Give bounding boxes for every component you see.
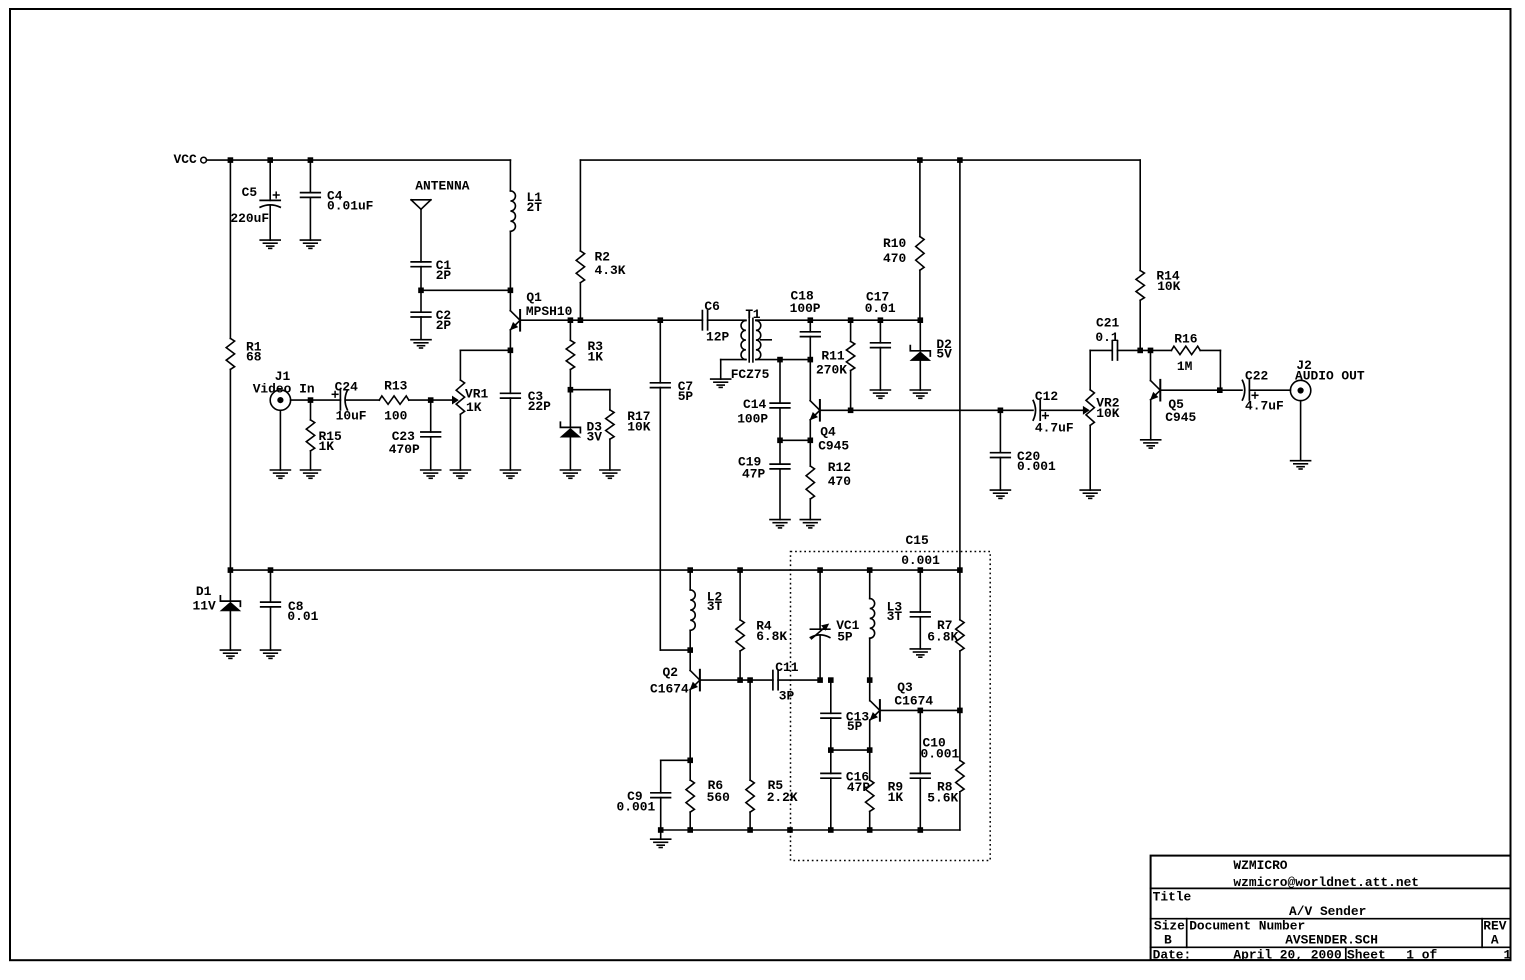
svg-text:C21: C21: [1096, 316, 1119, 331]
capacitor C6: [702, 299, 746, 345]
svg-text:100: 100: [384, 408, 407, 423]
resistor R11: [816, 320, 855, 410]
transistor Q1: [510, 290, 572, 350]
capacitor C10: [911, 710, 960, 830]
junction Q5 collector node: [1148, 348, 1154, 354]
junction bottom rail C10: [918, 827, 924, 833]
ground below R17: [600, 470, 620, 478]
svg-text:5P: 5P: [678, 389, 694, 404]
svg-text:0.001: 0.001: [921, 746, 960, 761]
junction Q4 emitter link right: [808, 438, 814, 444]
svg-text:FCZ75: FCZ75: [731, 367, 770, 382]
wire Q2 emitter to C9: [661, 760, 691, 793]
svg-text:April 20, 2000: April 20, 2000: [1233, 948, 1341, 963]
junction antenna node: [418, 288, 424, 294]
svg-text:Size: Size: [1154, 919, 1185, 934]
resistor R5: [746, 680, 798, 830]
svg-text:3P: 3P: [779, 689, 795, 704]
ground below C5: [260, 240, 280, 248]
ground below C3: [500, 470, 520, 478]
capacitor C4: [301, 160, 374, 240]
capacitor C17: [865, 290, 896, 390]
svg-text:C24: C24: [335, 380, 358, 395]
junction base line R5 / C11: [747, 677, 753, 683]
junction RF line C18: [808, 317, 814, 323]
capacitor C11: [750, 660, 820, 704]
zener diode D3: [560, 390, 602, 470]
junction R14 / C21 node: [1137, 348, 1143, 354]
svg-text:R13: R13: [384, 379, 407, 394]
capacitor C19: [738, 440, 790, 519]
wire node to R16: [1140, 349, 1171, 351]
transistor Q2: [650, 650, 700, 760]
svg-text:11V: 11V: [193, 599, 216, 614]
ground below J1: [270, 470, 290, 478]
junction top rail C4: [308, 157, 314, 163]
svg-text:C1674: C1674: [894, 694, 933, 709]
svg-text:4.3K: 4.3K: [595, 263, 626, 278]
capacitor C22: [1242, 369, 1290, 414]
svg-text:470: 470: [828, 474, 851, 489]
junction base line R2: [578, 317, 584, 323]
resistor R4: [736, 570, 788, 680]
variable capacitor VC1: [810, 570, 859, 680]
junction lower rail C15: [918, 567, 924, 573]
svg-text:2.2K: 2.2K: [767, 790, 798, 805]
svg-text:C14: C14: [743, 397, 766, 412]
svg-text:C945: C945: [1165, 410, 1196, 425]
capacitor C18: [790, 288, 821, 359]
svg-text:3T: 3T: [887, 609, 903, 624]
svg-text:4.7uF: 4.7uF: [1035, 420, 1074, 435]
svg-text:WZMICRO: WZMICRO: [1233, 858, 1287, 873]
svg-text:Q1: Q1: [526, 290, 542, 305]
junction bottom rail R6: [687, 827, 693, 833]
wire Q1 base line: [520, 319, 702, 321]
junction Q3 base R7 R8: [957, 708, 963, 714]
ground below Q5: [1141, 440, 1161, 448]
svg-text:47P: 47P: [742, 467, 765, 482]
junction RF line R11: [848, 317, 854, 323]
svg-text:REV: REV: [1483, 919, 1506, 934]
connector J1 Video In: [253, 369, 315, 470]
capacitor C7: [651, 320, 694, 650]
transistor Q4: [810, 360, 849, 454]
svg-text:Date:: Date:: [1153, 948, 1192, 963]
svg-text:B: B: [1164, 933, 1172, 948]
ground below J2: [1291, 461, 1311, 469]
svg-text:6.8K: 6.8K: [756, 629, 787, 644]
capacitor C9: [617, 789, 671, 830]
junction bottom rail R9: [867, 827, 873, 833]
svg-text:ANTENNA: ANTENNA: [415, 179, 469, 194]
wire C13 to Q3 emitter: [831, 749, 870, 751]
svg-text:5P: 5P: [837, 630, 853, 645]
capacitor C8: [261, 570, 319, 650]
svg-text:A: A: [1491, 933, 1499, 948]
svg-text:1K: 1K: [888, 790, 904, 805]
ground below C8: [261, 650, 281, 658]
svg-text:1M: 1M: [1177, 359, 1193, 374]
wire Q3 base line: [880, 709, 960, 711]
junction Q5 base / R16: [1217, 387, 1223, 393]
capacitor C3: [501, 350, 552, 470]
ground below D2: [910, 390, 930, 398]
junction base line R3: [568, 317, 574, 323]
junction Q3 base C10: [918, 708, 924, 714]
ground below C17: [870, 390, 890, 398]
title block title row: [1153, 890, 1367, 920]
junction lower rail VC1: [817, 567, 823, 573]
svg-text:560: 560: [707, 790, 730, 805]
junction lower rail C8: [268, 567, 274, 573]
junction lower rail oscillator column: [957, 567, 963, 573]
ground below T1 primary: [711, 379, 731, 387]
junction osc line L3 / Q3 collector: [867, 677, 873, 683]
junction base line C7: [658, 317, 664, 323]
capacitor C13: [821, 680, 869, 750]
svg-text:AVSENDER.SCH: AVSENDER.SCH: [1285, 933, 1378, 948]
capacitor C1: [411, 258, 451, 312]
svg-text:0.01: 0.01: [287, 609, 318, 624]
wire lower rail: [230, 569, 960, 571]
resistor R15: [306, 400, 342, 470]
capacitor C20: [991, 410, 1056, 490]
svg-text:D1: D1: [196, 584, 212, 599]
ground below D1: [220, 650, 240, 658]
wire RF output line: [756, 319, 920, 321]
potentiometer VR1: [431, 380, 489, 470]
svg-text:68: 68: [246, 350, 262, 365]
capacitor C16: [821, 750, 870, 830]
svg-text:Q2: Q2: [663, 665, 678, 680]
junction bottom rail R5: [747, 827, 753, 833]
svg-text:10K: 10K: [627, 420, 650, 435]
title block size/document row: [1154, 919, 1507, 948]
ground below C19: [770, 520, 790, 528]
ground below VR1: [450, 470, 470, 478]
zener diode D1: [193, 570, 241, 650]
svg-text:0.01: 0.01: [865, 301, 896, 316]
svg-text:6.8K: 6.8K: [927, 630, 958, 645]
svg-text:1 of: 1 of: [1406, 948, 1437, 963]
capacitor C14: [737, 360, 790, 441]
wire VCC top rail left segment: [207, 159, 511, 161]
junction bottom rail C9 ground: [658, 827, 664, 833]
transformer T1 primary winding: [721, 307, 770, 382]
inductor L2: [690, 570, 722, 650]
svg-text:1K: 1K: [466, 400, 482, 415]
svg-text:220uF: 220uF: [230, 211, 269, 226]
svg-text:0.01uF: 0.01uF: [327, 199, 373, 214]
resistor R9: [866, 750, 904, 830]
node VCC terminal: [174, 152, 207, 167]
junction secondary bottom C18 / Q4 collector: [808, 357, 814, 363]
svg-text:470: 470: [883, 251, 906, 266]
resistor R7: [927, 570, 964, 710]
wire oscillator bottom rail: [661, 830, 960, 839]
svg-text:R10: R10: [883, 236, 906, 251]
ground below D3: [560, 470, 580, 478]
junction lower rail D1: [228, 567, 234, 573]
junction C14 / Q4 emitter link left: [777, 438, 783, 444]
resistor R16: [1171, 332, 1220, 391]
svg-text:C5: C5: [242, 185, 258, 200]
svg-text:C22: C22: [1245, 369, 1268, 384]
junction C13 / Q3 emitter right: [867, 747, 873, 753]
svg-text:2P: 2P: [436, 318, 452, 333]
resistor R13: [379, 379, 430, 424]
svg-text:270K: 270K: [816, 363, 847, 378]
junction secondary bottom C14: [777, 357, 783, 363]
svg-text:VCC: VCC: [174, 152, 197, 167]
svg-text:Sheet: Sheet: [1347, 948, 1386, 963]
inductor L3: [870, 570, 903, 680]
wire Q5 base to C22: [1160, 389, 1242, 391]
svg-text:1: 1: [1504, 948, 1512, 963]
wire top rail to oscillator column: [959, 160, 961, 570]
svg-text:0.001: 0.001: [617, 800, 656, 815]
svg-text:1K: 1K: [319, 439, 335, 454]
svg-text:R16: R16: [1174, 332, 1197, 347]
junction lower rail L2: [687, 567, 693, 573]
resistor R1: [226, 160, 262, 570]
svg-text:AUDIO OUT: AUDIO OUT: [1295, 368, 1365, 383]
resistor R17: [570, 390, 650, 470]
svg-text:5P: 5P: [847, 719, 863, 734]
potentiometer VR2: [1083, 350, 1120, 490]
svg-text:C12: C12: [1035, 389, 1058, 404]
transistor Q3: [870, 680, 934, 750]
capacitor C2: [411, 308, 451, 340]
junction RF line C17: [878, 317, 884, 323]
svg-text:Title: Title: [1153, 890, 1192, 905]
zener diode D2: [910, 320, 952, 390]
svg-text:A/V Sender: A/V Sender: [1289, 904, 1366, 919]
svg-text:Video In: Video In: [253, 382, 315, 397]
resistor R14: [1136, 160, 1181, 350]
resistor R3: [566, 320, 603, 390]
junction base line R4: [737, 677, 743, 683]
junction osc line VC1: [817, 677, 823, 683]
junction osc line C13: [828, 677, 834, 683]
junction Q2 emitter / C9: [687, 758, 693, 764]
junction top rail C5: [267, 157, 273, 163]
capacitor C15: [901, 533, 940, 649]
svg-text:12P: 12P: [706, 330, 729, 345]
svg-text:4.7uF: 4.7uF: [1245, 399, 1284, 414]
svg-text:2T: 2T: [527, 200, 543, 215]
inductor L1: [510, 160, 542, 311]
junction RF line D2: [918, 317, 924, 323]
junction R13 / C23 / VR1 wiper: [428, 397, 434, 403]
antenna symbol: [411, 179, 470, 262]
ground below C4: [300, 240, 320, 248]
ground below C2: [411, 340, 431, 348]
svg-text:C1674: C1674: [650, 682, 689, 697]
wire VCC top rail right segment: [580, 159, 1140, 161]
svg-text:0.001: 0.001: [1017, 459, 1056, 474]
junction L2 / Q2 collector: [687, 647, 693, 653]
svg-text:470P: 470P: [389, 442, 420, 457]
capacitor C24: [311, 380, 380, 424]
ground below R15: [301, 470, 321, 478]
resistor R10: [883, 160, 924, 320]
ground below oscillator rail: [651, 839, 671, 847]
junction R3 / D3 / R17: [568, 387, 574, 393]
title block date/sheet row: [1153, 948, 1512, 963]
transformer T1 secondary winding: [756, 320, 810, 359]
resistor R12: [806, 440, 851, 519]
svg-text:1K: 1K: [588, 350, 604, 365]
junction audio line C20: [998, 408, 1004, 414]
svg-text:3T: 3T: [707, 599, 723, 614]
svg-text:C945: C945: [818, 439, 849, 454]
svg-text:3V: 3V: [587, 430, 603, 445]
ground below VR2: [1080, 490, 1100, 498]
junction Q1 emitter / VR1 top: [508, 348, 514, 354]
capacitor C23: [389, 400, 441, 470]
wire Q4 base audio line: [820, 409, 1033, 411]
svg-text:0.001: 0.001: [901, 553, 940, 568]
resistor R6: [686, 760, 730, 830]
svg-text:C11: C11: [775, 660, 798, 675]
junction bottom rail C16: [828, 827, 834, 833]
svg-text:0.1: 0.1: [1095, 330, 1118, 345]
svg-text:5V: 5V: [936, 346, 952, 361]
capacitor C12: [1033, 389, 1083, 435]
wire Q2 base line: [700, 679, 750, 681]
title block company text: [1233, 858, 1419, 890]
svg-text:Document Number: Document Number: [1189, 919, 1305, 934]
junction lower rail L3: [867, 567, 873, 573]
transistor Q5: [1151, 350, 1197, 439]
junction top rail R10: [917, 157, 923, 163]
svg-text:100P: 100P: [737, 411, 768, 426]
svg-text:10uF: 10uF: [336, 408, 367, 423]
svg-text:Q4: Q4: [820, 425, 836, 440]
junction J1 / R15: [308, 397, 314, 403]
svg-text:wzmicro@worldnet.att.net: wzmicro@worldnet.att.net: [1233, 875, 1419, 890]
wire C14 to Q4 emitter: [780, 439, 810, 441]
svg-text:MPSH10: MPSH10: [526, 304, 572, 319]
junction Q1 collector column: [508, 288, 514, 294]
ground below C15: [910, 649, 930, 657]
svg-text:22P: 22P: [528, 399, 551, 414]
junction top rail R1: [228, 157, 234, 163]
connector J2 AUDIO OUT: [1290, 358, 1364, 461]
svg-text:C6: C6: [704, 299, 720, 314]
title block frame: [1151, 856, 1511, 960]
svg-text:R11: R11: [821, 349, 844, 364]
svg-text:10K: 10K: [1096, 406, 1119, 421]
transformer T1 core: [749, 318, 753, 362]
resistor R2: [576, 160, 626, 320]
ground below C20: [990, 490, 1010, 498]
junction top rail column to oscillator: [957, 157, 963, 163]
ground below R12: [800, 520, 820, 528]
wire VR1 top to Q1 emitter: [460, 350, 510, 380]
junction lower rail R4: [737, 567, 743, 573]
svg-text:100P: 100P: [790, 301, 821, 316]
dotted module boundary box: [791, 552, 991, 861]
capacitor C21: [1095, 316, 1140, 360]
svg-text:5.6K: 5.6K: [927, 791, 958, 806]
wire antenna node to Q1 collector: [421, 289, 510, 291]
capacitor C5: [230, 160, 280, 240]
junction C13 / Q3 emitter left: [828, 747, 834, 753]
svg-text:C15: C15: [906, 533, 929, 548]
ground below C23: [421, 470, 441, 478]
svg-text:10K: 10K: [1157, 279, 1180, 294]
svg-text:2P: 2P: [436, 268, 452, 283]
svg-text:R12: R12: [828, 460, 851, 475]
junction audio line R11: [848, 408, 854, 414]
resistor R8: [927, 710, 964, 830]
junction bottom rail box edge: [787, 827, 793, 833]
